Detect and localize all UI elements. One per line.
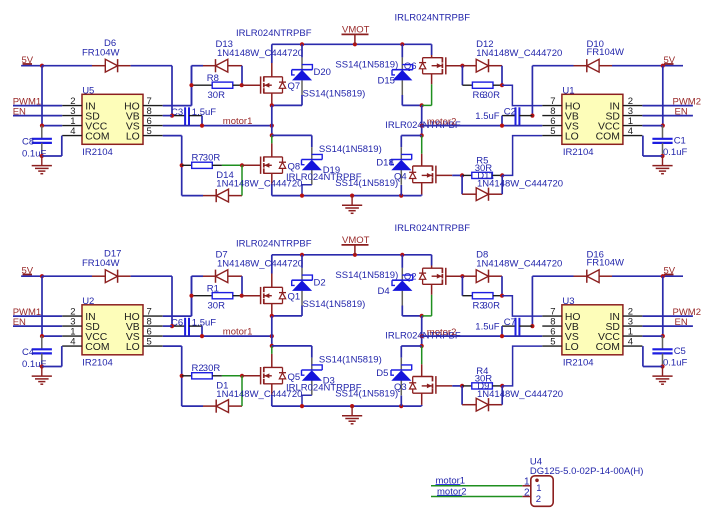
capacitor C5 0.1uF (right) [652, 336, 687, 368]
svg-text:U2: U2 [82, 296, 94, 307]
node 5V-left junction [40, 64, 44, 68]
net label motor1 (connector) [436, 476, 466, 487]
wire low source to rail (left) [271, 384, 273, 406]
svg-text:C1: C1 [674, 136, 686, 147]
svg-text:IR2104: IR2104 [563, 147, 594, 158]
label IRLR024NTRPBF (low-side right) [385, 120, 461, 131]
wire COM-left return [42, 346, 62, 366]
power port 5V (left) [22, 55, 34, 66]
node gate junction upper-left [189, 294, 243, 298]
diode D1 1N4148W (gate-discharge lower-left) [182, 376, 303, 413]
svg-text:IRLR024NTRPBF: IRLR024NTRPBF [395, 223, 471, 234]
diode D12 1N4148W (gate-discharge upper-right) [462, 39, 562, 85]
net label motor2 (right) [427, 117, 457, 128]
transistor Q5 IRLR024N (low-side left) [261, 367, 301, 385]
svg-text:0.1uF: 0.1uF [663, 357, 687, 368]
svg-text:EN: EN [675, 317, 688, 328]
svg-text:4: 4 [628, 337, 633, 348]
wire HO-right link [502, 85, 542, 105]
svg-text:2: 2 [524, 487, 530, 498]
capacitor C7 1.5uF (bootstrap right) [475, 317, 532, 337]
svg-text:Q8: Q8 [288, 162, 301, 173]
svg-text:D5: D5 [376, 368, 388, 379]
diode D16 FR104W (right) [532, 249, 662, 283]
svg-text:U3: U3 [562, 296, 574, 307]
svg-text:1.5uF: 1.5uF [475, 321, 499, 332]
ground (right driver) [652, 156, 672, 174]
wire 5V vertical to VCC [41, 66, 43, 126]
connector U4 DG125-5.0-02P-14-00A(H) [530, 457, 644, 507]
wire low source to rail (left) [271, 173, 273, 195]
wire HO-left [163, 66, 192, 106]
diode D2 SS14 (freewheel top-left) [292, 255, 366, 316]
transistor Q2 IRLR024N (high-side right) [404, 268, 446, 285]
wire 5V vertical right [661, 276, 665, 338]
wire gate lower-left (green) [222, 374, 261, 378]
svg-text:DG125-5.0-02P-14-00A(H): DG125-5.0-02P-14-00A(H) [530, 466, 644, 477]
svg-text:motor2: motor2 [427, 327, 457, 338]
wire VCC-right [642, 125, 662, 127]
svg-text:SS14(1N5819): SS14(1N5819) [303, 89, 366, 100]
wire motor2 to U4 (green) [431, 496, 522, 498]
wire LO-right link [502, 346, 542, 386]
wire LO-left down [163, 346, 184, 406]
svg-text:Q1: Q1 [288, 292, 301, 303]
wire HO-right link [502, 296, 542, 316]
svg-text:30R: 30R [483, 301, 501, 312]
wire midpoint to low-FET drain (right, green) [421, 136, 423, 167]
svg-text:5V: 5V [22, 266, 34, 277]
diode D11 1N4148W (gate-discharge lower-right) [462, 175, 502, 200]
diode D18 SS14 (freewheel bottom-right) [376, 136, 421, 196]
svg-text:EN: EN [675, 106, 688, 117]
pin 2 of U4 [522, 487, 531, 498]
net label EN (left) + wire [13, 317, 63, 328]
node gate junction upper-left [189, 83, 243, 87]
resistor R1 30R (gate upper-left) [192, 276, 242, 316]
svg-text:1N4148W_C444720: 1N4148W_C444720 [476, 48, 562, 59]
svg-text:COM: COM [596, 131, 620, 142]
wire D-left to VB [131, 66, 172, 116]
svg-text:1N4148W_C444720: 1N4148W_C444720 [217, 259, 303, 270]
node VB-left junction [170, 324, 174, 328]
svg-text:0.1uF: 0.1uF [663, 147, 687, 158]
IC U1 IR2104 (right driver) [542, 85, 642, 158]
label IRLR024NTRPBF (low-side left) [286, 383, 362, 394]
capacitor C1 0.1uF (right) [652, 126, 687, 158]
diode D9 1N4148W (gate-discharge lower-right) [462, 386, 502, 411]
diode D10 FR104W (right) [532, 39, 662, 73]
diode D6 FR104W [42, 38, 131, 72]
wire gate lower-left (green) [222, 163, 261, 167]
ground symbol (half-bridge) [342, 196, 362, 214]
svg-text:5V: 5V [22, 55, 34, 66]
wire 5V to junction [21, 275, 42, 277]
svg-text:D20: D20 [314, 67, 331, 78]
svg-text:30R: 30R [208, 301, 226, 312]
ground rail (bottom of half) [272, 404, 422, 408]
diode D5 SS14 (freewheel bottom-right) [376, 346, 421, 406]
transistor Q6 IRLR024N (high-side right) [404, 57, 446, 74]
wire 5V vertical right [661, 66, 665, 128]
label IRLR024NTRPBF (low-side right) [385, 330, 461, 341]
label IRLR024NTRPBF (high-side left) [236, 238, 312, 249]
transistor Q8 IRLR024N (low-side left) [261, 156, 301, 174]
svg-text:motor1: motor1 [223, 116, 253, 127]
VMOT rail (top) [272, 42, 432, 46]
wire source to midpoint (left) [271, 93, 273, 105]
svg-text:SS14(1N5819): SS14(1N5819) [319, 144, 382, 155]
svg-text:30R: 30R [203, 152, 221, 163]
svg-text:1N4148W_C444720: 1N4148W_C444720 [477, 178, 563, 189]
wire drain to VMOT rail (left) [271, 44, 273, 77]
ground (left driver) [32, 367, 52, 385]
svg-text:1: 1 [536, 483, 541, 494]
svg-text:IRLR024NTRPBF: IRLR024NTRPBF [395, 12, 471, 23]
svg-text:R8: R8 [207, 73, 219, 84]
svg-text:5: 5 [550, 337, 555, 348]
net label EN (right) + wire [642, 106, 693, 117]
svg-text:0.1uF: 0.1uF [22, 149, 46, 160]
svg-text:Q4: Q4 [394, 171, 407, 182]
diode D19 SS14 (freewheel bottom-left) [272, 135, 398, 195]
ground (right driver) [652, 367, 672, 385]
label D11 (overlapping resistor) [477, 170, 563, 189]
svg-text:FR104W: FR104W [82, 48, 120, 59]
net label EN (right) + wire [642, 317, 693, 328]
svg-text:4: 4 [628, 126, 633, 137]
wire gate low-right [436, 384, 464, 388]
VMOT rail (top) [272, 253, 432, 257]
wire drain to VMOT rail (left) [271, 255, 273, 287]
label D9 (overlapping resistor) [477, 381, 563, 400]
net label PWM2 + wire [642, 307, 701, 318]
svg-text:D4: D4 [378, 286, 390, 297]
node C-left bottom junction [40, 364, 44, 368]
label IRLR024NTRPBF (high-side right) [395, 223, 471, 234]
svg-text:C2: C2 [504, 106, 516, 117]
wire VB feed (right) [530, 276, 534, 328]
wire source to midpoint (left) [271, 304, 273, 316]
svg-text:SS14(1N5819): SS14(1N5819) [303, 299, 366, 310]
svg-text:SS14(1N5819): SS14(1N5819) [335, 60, 398, 71]
svg-text:0.1uF: 0.1uF [22, 359, 46, 370]
svg-text:C4: C4 [22, 347, 34, 358]
wire 5V vertical to VCC [41, 276, 43, 336]
svg-text:LO: LO [565, 131, 579, 142]
svg-text:D18: D18 [376, 158, 393, 169]
resistor R8 30R (gate upper-left) [192, 66, 242, 106]
wire midpoint vertical (right) [420, 105, 424, 137]
net label PWM1 + wire [13, 96, 63, 107]
power port 5V (left) [22, 266, 34, 277]
wire source high-right (maroon) [431, 284, 433, 294]
wire midpoint vertical (left) [270, 105, 274, 137]
resistor R6 30R (gate upper-right) [462, 66, 504, 101]
wire COM-right return [643, 136, 663, 156]
wire gate upper-left [242, 84, 261, 86]
IC U3 IR2104 (right driver) [542, 296, 642, 369]
svg-text:C7: C7 [504, 317, 516, 328]
net label EN (left) + wire [13, 106, 63, 117]
wire midpoint to low-FET drain (left, green) [271, 135, 273, 157]
svg-text:1.5uF: 1.5uF [475, 111, 499, 122]
wire midpoint node (right top) [402, 295, 431, 318]
svg-text:FR104W: FR104W [82, 258, 120, 269]
svg-text:IRLR024NTRPBF: IRLR024NTRPBF [236, 28, 312, 39]
ground rail (bottom of half) [272, 194, 422, 198]
svg-text:1N4148W_C444720: 1N4148W_C444720 [216, 389, 302, 400]
IC U2 IR2104 (left driver) [62, 296, 163, 369]
diode D13 1N4148W (gate-discharge upper-left) [192, 39, 304, 85]
diode D14 1N4148W (gate-discharge lower-left) [182, 165, 303, 202]
wire midpoint to low-FET drain (right, green) [421, 346, 423, 377]
node VB-left junction [170, 114, 174, 118]
wire low source right to rail [421, 393, 423, 406]
pin 1 of U4 [522, 477, 531, 488]
svg-text:COM: COM [85, 342, 109, 353]
diode D3 SS14 (freewheel bottom-left) [272, 346, 398, 406]
svg-text:IR2104: IR2104 [563, 358, 594, 369]
svg-text:motor1: motor1 [223, 327, 253, 338]
resistor R5 30R (gate lower-right) [462, 155, 504, 178]
svg-text:R1: R1 [207, 284, 219, 295]
svg-text:5: 5 [550, 126, 555, 137]
svg-text:SS14(1N5819): SS14(1N5819) [319, 354, 382, 365]
wire VS / motor net (right) [422, 334, 543, 338]
svg-text:1N4148W_C444720: 1N4148W_C444720 [216, 178, 302, 189]
net label motor1 (left) [223, 116, 253, 127]
svg-text:30R: 30R [203, 363, 221, 374]
wire COM-right return [643, 346, 663, 366]
transistor Q3 IRLR024N (low-side right) [394, 376, 436, 394]
svg-text:COM: COM [596, 342, 620, 353]
capacitor C2 1.5uF (bootstrap right) [475, 106, 532, 126]
svg-text:D15: D15 [378, 76, 395, 87]
capacitor C4 0.1uF (left) [22, 336, 52, 370]
wire midpoint vertical (right) [420, 316, 424, 348]
power port VMOT [342, 235, 370, 255]
diode D20 SS14 (freewheel top-left) [292, 44, 366, 105]
wire VCC-left [40, 334, 62, 338]
diode D4 SS14 (freewheel top-right) [335, 255, 412, 316]
transistor Q4 IRLR024N (low-side right) [394, 166, 436, 184]
svg-text:U5: U5 [82, 85, 94, 96]
wire VS / motor net (left) [163, 124, 274, 128]
wire VS / motor net (left) [163, 334, 274, 338]
resistor R2 30R (gate lower-left) [182, 363, 222, 379]
power port 5V (right) [661, 55, 683, 68]
wire HO-left [163, 276, 192, 316]
IC U5 IR2104 (left driver) [62, 85, 163, 158]
svg-text:4: 4 [70, 126, 75, 137]
svg-text:5: 5 [147, 126, 152, 137]
svg-text:LO: LO [565, 342, 579, 353]
svg-text:1.5uF: 1.5uF [192, 317, 216, 328]
power port VMOT [342, 25, 370, 45]
wire gate high-right [446, 64, 465, 68]
diode D7 1N4148W (gate-discharge upper-left) [192, 250, 304, 296]
wire D-left to VB [131, 276, 172, 326]
wire VB pin to junction [163, 115, 172, 117]
svg-text:LO: LO [126, 131, 140, 142]
svg-text:FR104W: FR104W [587, 258, 625, 269]
net label PWM1 + wire [13, 307, 63, 318]
ground (left driver) [32, 156, 52, 174]
svg-text:Q5: Q5 [288, 372, 301, 383]
transistor Q1 IRLR024N (high-side left) [261, 287, 301, 304]
svg-text:2: 2 [536, 494, 541, 505]
wire VB feed (right) [530, 66, 534, 118]
svg-text:1N4148W_C444720: 1N4148W_C444720 [477, 389, 563, 400]
svg-text:Q7: Q7 [288, 81, 301, 92]
label IRLR024NTRPBF (high-side left) [236, 28, 312, 39]
wire gate upper-left [242, 295, 261, 297]
svg-text:30R: 30R [483, 90, 501, 101]
wire D-SS top-left to midpoint [270, 103, 302, 107]
net label PWM2 + wire [642, 96, 701, 107]
wire drain right to rail [431, 255, 433, 268]
diode D8 1N4148W (gate-discharge upper-right) [462, 250, 562, 296]
transistor Q7 IRLR024N (high-side left) [261, 76, 301, 93]
label IRLR024NTRPBF (low-side left) [286, 172, 362, 183]
resistor R3 30R (gate upper-right) [462, 276, 504, 311]
svg-text:5: 5 [147, 337, 152, 348]
svg-text:4: 4 [70, 337, 75, 348]
svg-text:SS14(1N5819): SS14(1N5819) [335, 270, 398, 281]
svg-text:1N4148W_C444720: 1N4148W_C444720 [476, 259, 562, 270]
wire gate low-right [436, 173, 464, 177]
resistor R7 30R (gate lower-left) [182, 152, 222, 168]
node C-left bottom junction [40, 154, 44, 158]
resistor R4 30R (gate lower-right) [462, 366, 504, 389]
wire motor1 to U4 (green) [431, 485, 522, 487]
svg-text:1N4148W_C444720: 1N4148W_C444720 [217, 48, 303, 59]
wire low source right to rail [421, 183, 423, 196]
diode D17 FR104W [42, 249, 131, 283]
svg-text:C8: C8 [22, 137, 34, 148]
svg-text:1.5uF: 1.5uF [192, 107, 216, 118]
wire D-SS top-left to midpoint [270, 314, 302, 318]
label IRLR024NTRPBF (high-side right) [395, 12, 471, 23]
wire gate high-right [446, 274, 465, 278]
capacitor C8 0.1uF (left) [22, 126, 52, 160]
power port 5V (right) [661, 266, 683, 279]
svg-text:IR2104: IR2104 [82, 358, 113, 369]
svg-text:C5: C5 [674, 346, 686, 357]
svg-text:D2: D2 [314, 278, 326, 289]
wire VCC-left [40, 124, 62, 128]
svg-text:30R: 30R [208, 90, 226, 101]
net label motor1 (left) [223, 327, 253, 338]
wire COM-left return [42, 136, 62, 156]
node 5V-left junction [40, 274, 44, 278]
node C-right bottom junction [660, 364, 664, 368]
net label motor2 (right) [427, 327, 457, 338]
wire LO-right link [502, 136, 542, 176]
wire midpoint node (right top) [402, 84, 431, 107]
svg-text:Q3: Q3 [394, 382, 407, 393]
wire midpoint to low-FET drain (left, green) [271, 346, 273, 368]
wire VB pin to junction [163, 325, 172, 327]
svg-text:COM: COM [85, 131, 109, 142]
wire 5V to junction [21, 65, 42, 67]
net label motor2 (connector) [437, 486, 467, 497]
wire midpoint vertical (left) [270, 316, 274, 348]
svg-text:FR104W: FR104W [587, 47, 625, 58]
wire VS / motor net (right) [422, 124, 543, 128]
wire drain right to rail [431, 44, 433, 57]
wire LO-left down [163, 136, 184, 196]
diode D15 SS14 (freewheel top-right) [335, 44, 412, 105]
node C-right bottom junction [660, 154, 664, 158]
ground symbol (half-bridge) [342, 406, 362, 424]
svg-text:motor2: motor2 [427, 117, 457, 128]
wire VCC-right [642, 335, 662, 337]
svg-text:U1: U1 [562, 85, 574, 96]
svg-text:IR2104: IR2104 [82, 147, 113, 158]
capacitor C3 1.5uF (bootstrap left) [171, 107, 216, 126]
svg-text:IRLR024NTRPBF: IRLR024NTRPBF [236, 238, 312, 249]
wire source high-right (maroon) [431, 74, 433, 84]
svg-text:1: 1 [524, 477, 530, 488]
capacitor C6 1.5uF (bootstrap left) [171, 317, 216, 336]
svg-text:LO: LO [126, 342, 140, 353]
